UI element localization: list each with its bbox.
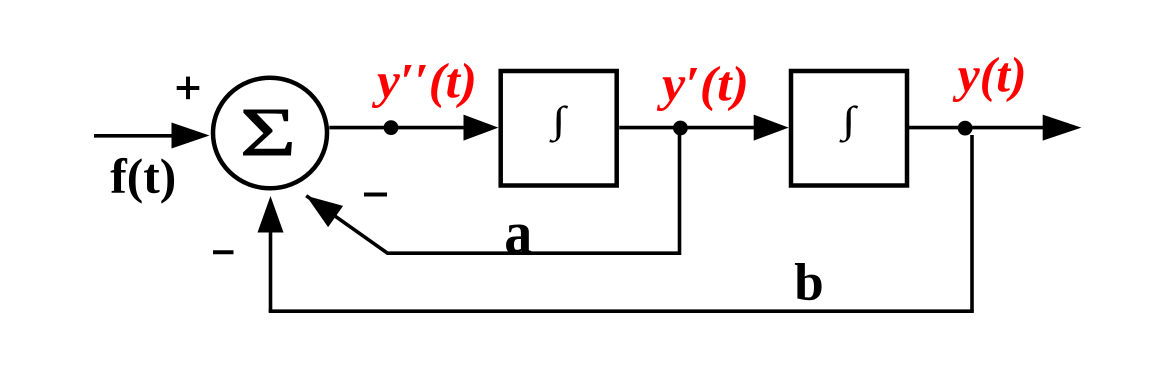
svg-text:a: a bbox=[504, 200, 532, 266]
wire: feedback b bottom horizontal bbox=[269, 309, 974, 313]
arrowhead into summing junction (input) bbox=[172, 123, 210, 149]
minus sign for feedback a bbox=[364, 193, 387, 197]
svg-text:y′′(t): y′′(t) bbox=[372, 53, 477, 109]
summing junction U1 (circle) bbox=[213, 78, 327, 189]
svg-text:b: b bbox=[794, 254, 823, 312]
plus sign at summing junction input bbox=[177, 77, 200, 100]
svg-text:y(t): y(t) bbox=[953, 47, 1027, 103]
output arrowhead bbox=[1043, 115, 1082, 141]
wire: input f(t) wire bbox=[94, 134, 175, 138]
arrowhead into first integrator bbox=[464, 115, 499, 141]
svg-text:f(t): f(t) bbox=[110, 148, 176, 204]
node: y'(t) junction dot bbox=[673, 121, 688, 136]
wire: first integrator to second integrator bbox=[619, 126, 756, 130]
wire: sum output to first integrator bbox=[329, 126, 466, 130]
minus sign for feedback b bbox=[213, 250, 234, 254]
svg-text:y′(t): y′(t) bbox=[657, 55, 749, 111]
wire: feedback b left vertical up into sum bbox=[269, 230, 273, 312]
arrowhead of feedback b into summing junction bottom bbox=[258, 196, 284, 233]
svg-text:Σ: Σ bbox=[240, 94, 296, 170]
wire: second integrator to output bbox=[909, 126, 1045, 130]
wire: feedback b vertical drop from y(t) node bbox=[970, 135, 974, 311]
wire: feedback a path (from y'(t) node down, left, diagonal into sum) bbox=[306, 128, 679, 253]
arrowhead of feedback a into summing junction bbox=[306, 196, 343, 227]
arrowhead into second integrator bbox=[754, 115, 789, 141]
node: y(t) junction dot bbox=[958, 121, 973, 136]
integrator block 2 bbox=[791, 71, 907, 186]
node: y''(t) junction dot bbox=[384, 120, 399, 135]
integrator block 1 bbox=[501, 71, 617, 186]
